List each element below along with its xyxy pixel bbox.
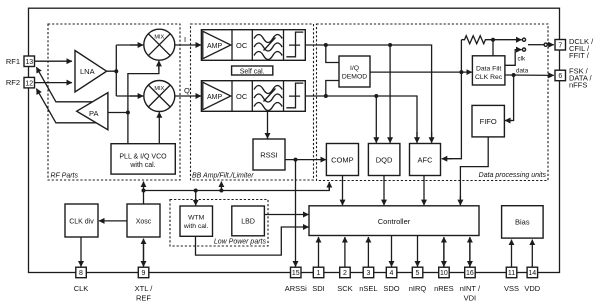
svg-text:16: 16 [466, 270, 474, 277]
junction data/FIFO [512, 73, 516, 77]
dashed box Low Power parts [170, 200, 268, 247]
svg-text:4: 4 [390, 270, 394, 277]
wire WTM to controller [196, 227, 309, 255]
amp AMP2 [203, 82, 231, 109]
junction RSSI/ARSSi [294, 158, 298, 162]
wire Q branch to DQD [375, 96, 377, 143]
wire demod out to Data Filt [370, 71, 472, 73]
svg-text:1: 1 [317, 270, 321, 277]
limiter symbol row1 [286, 32, 303, 57]
FIFO box [472, 105, 504, 136]
svg-text:MIX: MIX [154, 86, 164, 92]
svg-text:DEMOD: DEMOD [342, 74, 367, 81]
svg-text:CLK Rec: CLK Rec [475, 74, 503, 81]
svg-text:FIFO: FIFO [480, 117, 497, 126]
svg-text:AMP: AMP [207, 94, 223, 101]
wire Q line to AFC [305, 96, 417, 140]
wire DQD to controller [383, 176, 385, 206]
junction resistor node [491, 38, 495, 42]
wire PA lower output to pin12 [36, 89, 96, 123]
pin 4 SDO [383, 267, 399, 293]
pin 8 CLK [74, 267, 89, 293]
svg-text:7: 7 [558, 43, 562, 50]
BB chain row 2 (Q) [201, 81, 305, 112]
svg-text:10: 10 [440, 270, 448, 277]
arrow into BB section [220, 182, 222, 191]
pin 5 nIRQ [409, 267, 427, 293]
svg-text:data: data [516, 68, 529, 75]
wire LNA output to mixers [107, 45, 141, 96]
wire pin13 to LNA [35, 60, 73, 62]
svg-text:nFFS: nFFS [569, 81, 587, 90]
Data Filt CLK Rec box [472, 56, 505, 85]
wire I line to DQD/AFC [305, 45, 431, 140]
amp AMP1 [203, 31, 231, 58]
pin 1 SDI [312, 267, 325, 293]
svg-text:FFIT /: FFIT / [569, 51, 590, 60]
wire MIX1 to AMP1 with I label [175, 44, 201, 46]
pin 7 DCLK [555, 37, 594, 60]
wire MIX2 to AMP2 with Q label [175, 95, 201, 97]
junction I to DQD [388, 43, 392, 47]
wire pin 16 nINT bidirectional [469, 237, 471, 267]
svg-text:VSS: VSS [504, 284, 519, 293]
svg-text:SDO: SDO [383, 284, 399, 293]
junction bus to WTM [194, 189, 198, 193]
svg-text:SDI: SDI [312, 284, 325, 293]
dashed box Data processing units [317, 24, 549, 181]
svg-text:6: 6 [558, 73, 562, 80]
svg-text:13: 13 [25, 59, 33, 66]
svg-text:3: 3 [366, 270, 370, 277]
svg-text:Q: Q [184, 86, 190, 95]
wire CLK div to pin 8 [80, 237, 82, 267]
svg-text:9: 9 [142, 270, 146, 277]
arrow into data processing section [328, 182, 330, 190]
filter symbol row2 [254, 86, 282, 111]
pin 12 RF2 [6, 77, 35, 88]
wire data branch to FIFO [506, 75, 513, 121]
wire pin 14 VDD to Bias [531, 240, 533, 268]
pin 2 SCK [337, 267, 352, 293]
wire VCO to MIX2 [158, 112, 160, 144]
svg-text:nIRQ: nIRQ [409, 284, 427, 293]
svg-text:14: 14 [528, 270, 536, 277]
wire Xosc to CLK div [99, 220, 127, 222]
wire controller to pin 4 SDO [391, 236, 393, 267]
svg-text:REF: REF [136, 294, 151, 303]
wire Q branch into demod [326, 81, 339, 97]
svg-text:5: 5 [416, 270, 420, 277]
pin 9 XTL/REF [135, 267, 154, 302]
svg-text:I/Q: I/Q [350, 65, 359, 72]
svg-text:COMP: COMP [331, 156, 354, 165]
chip boundary [29, 8, 560, 272]
DQD box [368, 144, 400, 176]
wire AFC to controller [423, 176, 425, 206]
svg-text:CLK div: CLK div [69, 218, 94, 225]
svg-text:BB Amp/Filt./Limiter: BB Amp/Filt./Limiter [192, 173, 254, 180]
Xosc box [127, 204, 160, 237]
pin 6 FSK [555, 67, 593, 90]
svg-text:12: 12 [25, 80, 33, 87]
svg-text:VDD: VDD [524, 284, 540, 293]
svg-text:nINT /: nINT / [460, 284, 481, 293]
wire RSSI to COMP [285, 159, 326, 161]
PLL and VCO box [111, 144, 175, 174]
wire VCO to MIX1 [128, 64, 159, 144]
reference bus from Xosc [144, 183, 330, 205]
svg-text:Low Power parts: Low Power parts [214, 239, 267, 246]
pin 3 nSEL [359, 267, 377, 293]
filter symbol row1 [254, 35, 282, 60]
pin 15 ARSSi [285, 267, 307, 293]
wire ARSSi to pin 15 [295, 160, 297, 267]
AFC box [410, 144, 441, 176]
limiter symbol row2 [286, 83, 303, 108]
wire controller to pin 5 nIRQ [417, 236, 419, 267]
svg-text:nRES: nRES [434, 284, 454, 293]
wire pin 11 VSS to Bias [511, 240, 513, 268]
svg-text:OC: OC [236, 92, 248, 101]
wire FIFO to controller [460, 137, 488, 204]
junction VCO/PA [126, 111, 130, 115]
svg-text:PLL & I/Q VCO: PLL & I/Q VCO [119, 154, 167, 161]
Bias box [502, 206, 543, 238]
svg-text:ARSSi: ARSSi [285, 284, 307, 293]
PA amplifier [77, 93, 108, 130]
wire Xosc to pin 9 (bidirectional) [143, 239, 145, 266]
svg-text:15: 15 [292, 270, 300, 277]
mixer MIX1 [144, 29, 175, 60]
svg-text:RF2: RF2 [6, 78, 20, 87]
LNA amplifier [75, 51, 107, 93]
wire data to pin 6 [505, 74, 554, 76]
Controller box [309, 206, 479, 236]
svg-text:OC: OC [236, 41, 248, 50]
junction Q to DQD [374, 94, 378, 98]
I/Q demodulator U-demod [339, 56, 370, 87]
svg-text:WTM: WTM [188, 215, 205, 222]
dashed box RF Parts [48, 24, 180, 180]
LBD box [232, 206, 265, 236]
wire bus into WTM [195, 191, 197, 206]
svg-text:XTL /: XTL / [135, 284, 154, 293]
RSSI box [253, 139, 285, 170]
svg-text:RSSI: RSSI [260, 151, 278, 160]
svg-text:Data processing units: Data processing units [479, 172, 547, 179]
wire BB row2 to RSSI [267, 111, 269, 138]
junction bus at Xosc [142, 189, 146, 193]
wire filter node vertical to AFC [443, 40, 462, 159]
mixer MIX2 [144, 81, 175, 112]
wire resistor node to switch upper contact [493, 39, 522, 41]
pin 10 nRES [434, 267, 454, 293]
svg-text:with cal.: with cal. [183, 223, 209, 230]
junction LNA split [114, 69, 118, 73]
dashed box BB Amp/Filt./Limiter [191, 24, 314, 180]
wire I branch into demod [326, 45, 339, 63]
svg-text:CLK: CLK [74, 284, 89, 293]
svg-text:LBD: LBD [241, 219, 255, 226]
junction bus to BB [219, 189, 223, 193]
switch lower contact circle [522, 48, 525, 51]
wire pin 10 nRES bidirectional [443, 237, 445, 267]
svg-text:RF Parts: RF Parts [51, 173, 79, 180]
CLK div box [65, 204, 98, 237]
svg-text:DQD: DQD [376, 156, 393, 165]
pin 13 RF1 [6, 56, 35, 67]
junction demod-out / filter node [459, 70, 463, 74]
wire VCO to PA [108, 112, 128, 114]
resistor R ext filter [461, 36, 492, 44]
svg-text:PA: PA [89, 109, 98, 118]
junction I to demod [324, 43, 328, 47]
svg-text:11: 11 [508, 270, 515, 277]
BB chain row 1 (I) [201, 30, 305, 61]
svg-text:with cal.: with cal. [129, 162, 155, 169]
svg-text:RF1: RF1 [6, 57, 20, 66]
svg-text:nSEL: nSEL [359, 284, 377, 293]
svg-text:Data Filt: Data Filt [476, 65, 501, 72]
svg-text:LNA: LNA [80, 67, 95, 76]
svg-text:2: 2 [343, 270, 347, 277]
wire PA upper output to pin13 [36, 67, 92, 102]
svg-text:Bias: Bias [515, 218, 530, 227]
wire clk to switch lower contact [505, 50, 522, 66]
svg-text:Controller: Controller [378, 217, 411, 226]
wire pin12 to LNA [35, 82, 73, 84]
svg-text:MIX: MIX [154, 35, 164, 41]
wire LBD to controller [264, 214, 308, 216]
Self cal. box [232, 66, 273, 75]
pin 11 VSS [504, 267, 519, 293]
svg-text:AFC: AFC [418, 156, 434, 165]
wire pin 2 SCK to controller [344, 237, 346, 267]
svg-text:SCK: SCK [337, 284, 352, 293]
switch upper contact circle [522, 38, 525, 41]
junction Q to demod [324, 94, 328, 98]
wire pin 3 nSEL to controller [367, 237, 369, 267]
WTM box [180, 206, 213, 236]
svg-text:Xosc: Xosc [136, 218, 152, 225]
svg-text:clk: clk [518, 56, 527, 63]
svg-text:AMP: AMP [207, 43, 223, 50]
wire I branch to DQD [389, 45, 391, 143]
wire switch common to pin 7 [528, 44, 544, 46]
arrow into RF parts [143, 182, 145, 191]
svg-text:VDI: VDI [464, 294, 477, 303]
svg-text:Self cal.: Self cal. [240, 68, 265, 75]
wire pin 1 SDI to controller [318, 237, 320, 267]
pin 16 nINT/VDI [460, 267, 481, 302]
COMP box [326, 144, 358, 176]
svg-text:8: 8 [79, 270, 83, 277]
wire COMP to controller [342, 176, 344, 206]
wire resistor node into Data Filt top [492, 40, 494, 56]
svg-text:I: I [184, 35, 186, 44]
pin 14 VDD [524, 267, 540, 293]
